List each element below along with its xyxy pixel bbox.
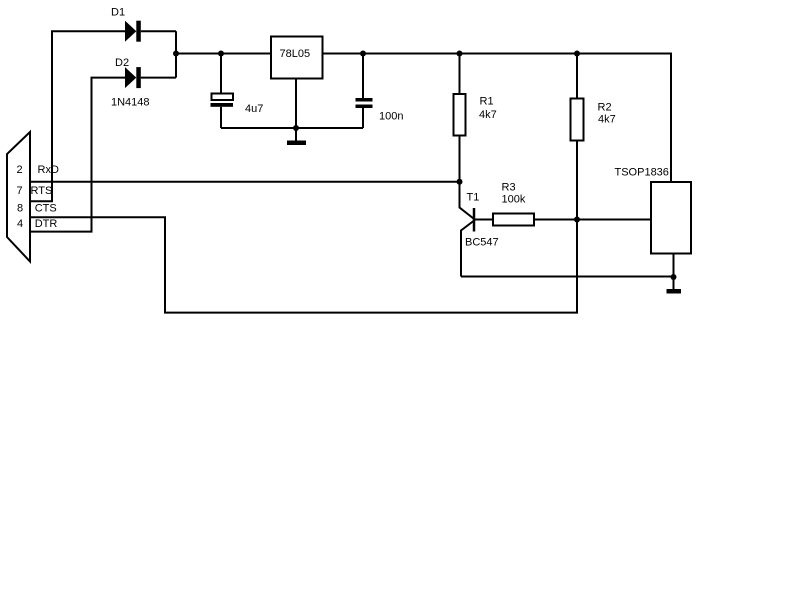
wire T1 emitter rail to TSOP ground	[461, 276, 674, 278]
wire C1 to rail	[220, 54, 222, 94]
resistor R2	[571, 99, 584, 141]
wire ground rail	[221, 127, 363, 129]
wire R2 bottom to node	[576, 141, 578, 220]
resistor R1	[454, 94, 466, 136]
wire RTS pin 7 to D1 anode	[30, 31, 125, 201]
wire DTR pin 4 to D2 anode	[30, 78, 125, 232]
svg-text:4u7: 4u7	[245, 103, 263, 115]
svg-text:D1: D1	[111, 7, 125, 19]
junction ground node	[293, 125, 299, 131]
svg-text:RTS: RTS	[31, 185, 53, 197]
svg-text:R3: R3	[502, 182, 516, 194]
wire +5V rail to TSOP Vs	[323, 54, 672, 183]
diode D1	[125, 21, 141, 42]
wire R1 to rail	[459, 54, 461, 95]
diode D2	[125, 67, 141, 88]
svg-text:CTS: CTS	[35, 203, 57, 215]
svg-text:4k7: 4k7	[479, 109, 497, 121]
svg-text:D2: D2	[115, 57, 129, 69]
wire T1 collector	[460, 182, 474, 219]
svg-text:DTR: DTR	[35, 218, 58, 230]
junction C1 top	[218, 51, 224, 57]
svg-text:R2: R2	[598, 102, 612, 114]
svg-text:TSOP1836: TSOP1836	[615, 167, 669, 179]
svg-text:2: 2	[17, 164, 23, 176]
wire C2 to rail	[362, 54, 364, 99]
junction R2 top	[574, 51, 580, 57]
svg-text:4: 4	[17, 218, 23, 230]
ground symbol (regulator)	[287, 128, 306, 145]
connector J1 (DB9 serial port body)	[7, 132, 30, 262]
IC U2 TSOP1836	[651, 182, 691, 254]
svg-text:T1: T1	[467, 192, 480, 204]
junction node diode output	[173, 51, 179, 57]
wire RxD pin 2 to collector node	[30, 181, 460, 183]
svg-text:100k: 100k	[502, 194, 526, 206]
junction base / R2 / CTS node	[574, 217, 580, 223]
svg-text:7: 7	[17, 185, 23, 197]
wire D2 cathode	[141, 77, 176, 79]
svg-text:8: 8	[17, 203, 23, 215]
transistor T1 BC547	[461, 208, 474, 277]
svg-text:1N4148: 1N4148	[111, 97, 150, 109]
wire C2 bottom	[362, 108, 364, 128]
svg-text:78L05: 78L05	[280, 48, 311, 60]
wire D1 cathode	[141, 30, 176, 32]
wire C1 bottom	[220, 107, 222, 128]
capacitor C2 100n	[356, 98, 373, 108]
wire R2 to rail	[576, 54, 578, 99]
svg-text:RxD: RxD	[38, 164, 59, 176]
junction R1 top	[457, 51, 463, 57]
ground symbol (TSOP)	[667, 277, 682, 294]
wire T1 base to R3	[474, 219, 493, 221]
wire diode cathodes junction vertical	[175, 31, 177, 77]
svg-text:100n: 100n	[379, 111, 403, 123]
junction C2 top	[360, 51, 366, 57]
wire CTS pin 8 to TSOP output node	[30, 217, 577, 312]
capacitor C1 4u7 (electrolytic)	[211, 94, 234, 107]
svg-text:4k7: 4k7	[598, 114, 616, 126]
regulator U1 78L05	[271, 37, 323, 79]
wire R1 bottom to RxD node	[459, 136, 461, 182]
wire TSOP ground pin	[673, 254, 675, 278]
junction TSOP ground node	[671, 274, 677, 280]
wire R3 to TSOP output	[534, 219, 651, 221]
svg-text:R1: R1	[480, 96, 494, 108]
wire unregulated rail to 78L05 input	[176, 53, 271, 55]
svg-text:BC547: BC547	[465, 237, 499, 249]
wire 78L05 ground pin	[295, 79, 297, 129]
junction RxD / collector node	[457, 179, 463, 185]
resistor R3	[493, 214, 534, 226]
